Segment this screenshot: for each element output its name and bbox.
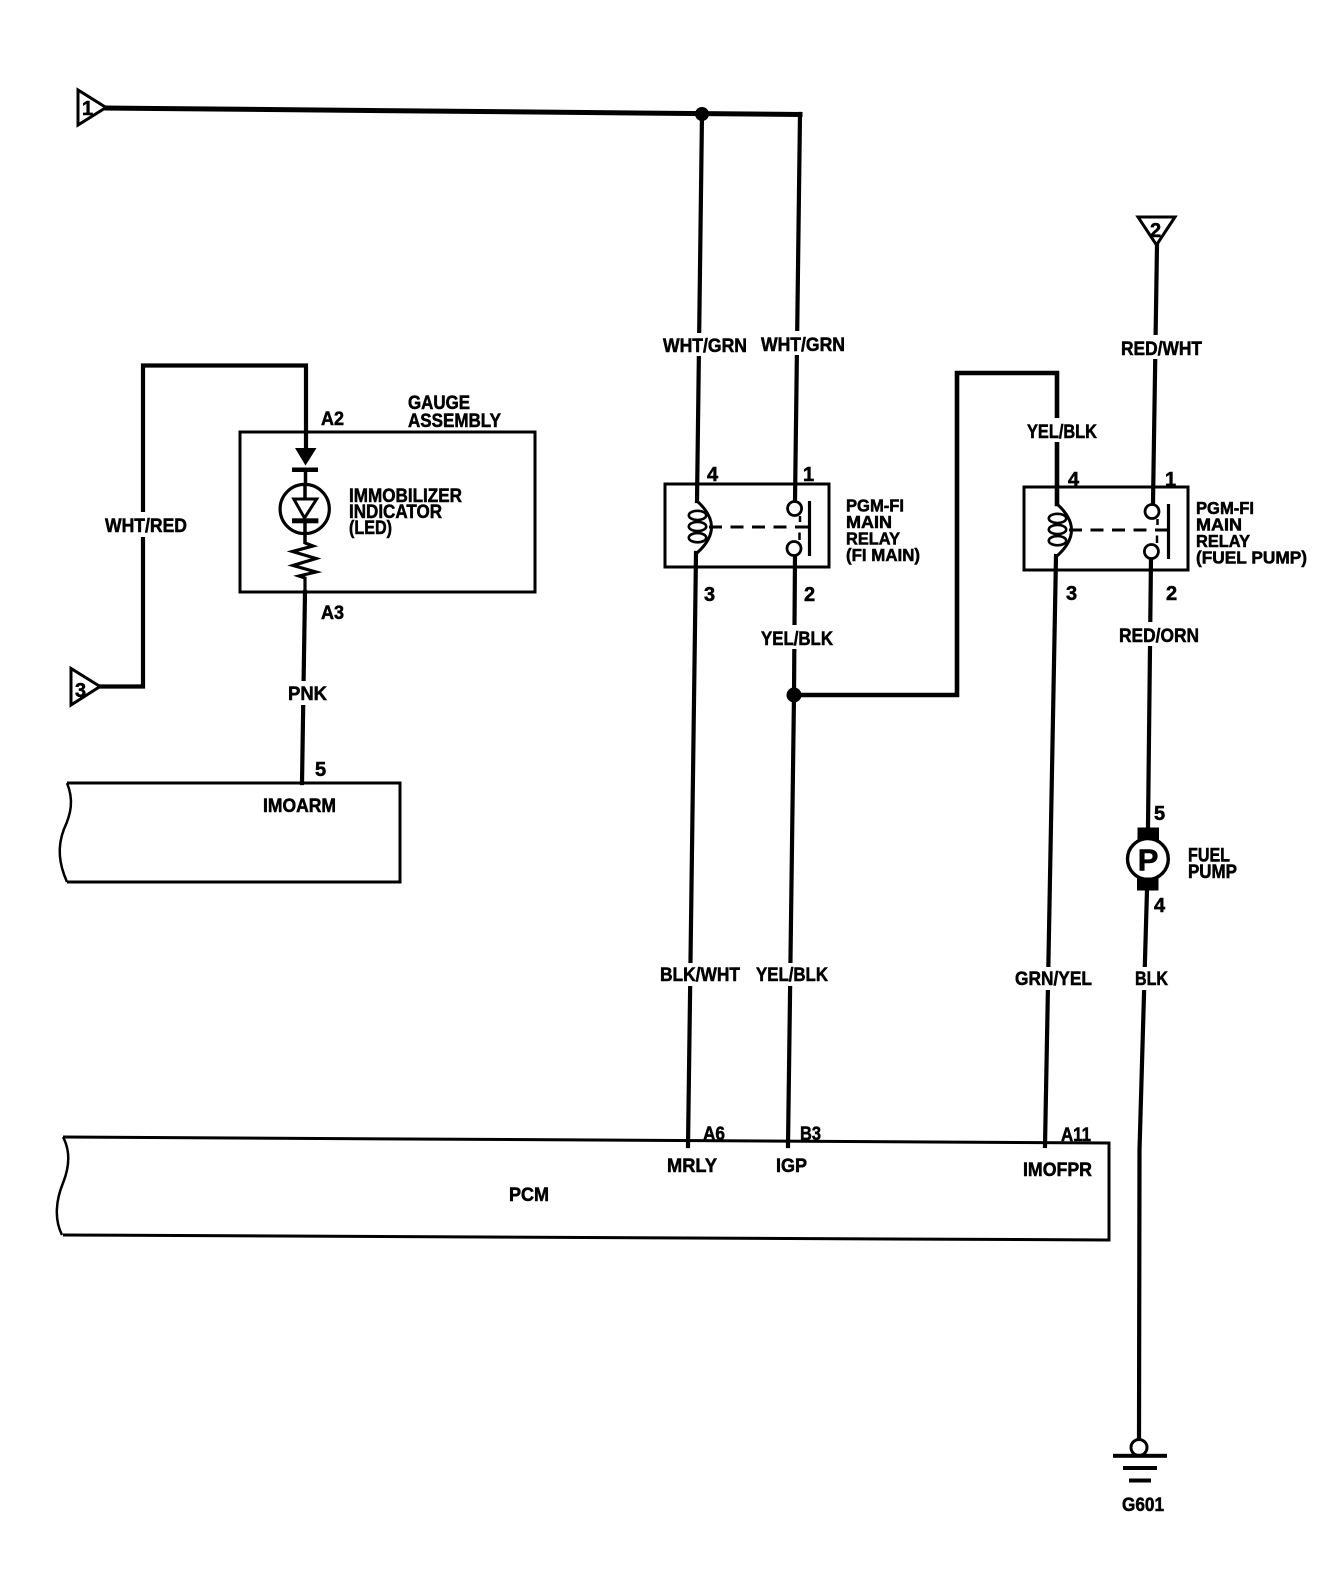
svg-text:A6: A6 (703, 1123, 725, 1145)
fuel pump top terminal (1138, 828, 1160, 842)
relay 2 PGM-FI main relay (FUEL PUMP) (1024, 469, 1188, 605)
relay1 contact circle pin2 (787, 542, 801, 556)
svg-text:WHT/GRN: WHT/GRN (663, 335, 747, 357)
svg-text:P: P (1138, 843, 1159, 878)
fuel pump (1128, 803, 1169, 917)
svg-text:1: 1 (803, 464, 814, 486)
svg-text:A3: A3 (321, 602, 344, 624)
wire YEL/BLK jumper from junction to relay2 coil (794, 373, 1057, 695)
svg-text:(LED): (LED) (349, 517, 392, 539)
gauge assembly box (240, 432, 535, 592)
relay1 armature bar (808, 501, 811, 556)
svg-text:5: 5 (1154, 803, 1165, 825)
diode (immobilizer indicator anode) (292, 448, 318, 485)
ground G601 (1113, 1440, 1167, 1483)
svg-text:RED/ORN: RED/ORN (1119, 625, 1199, 647)
svg-text:(FI MAIN): (FI MAIN) (846, 545, 920, 565)
connector arrow 3 (71, 669, 100, 706)
svg-text:PCM: PCM (509, 1184, 549, 1206)
label GRN/YEL (1011, 967, 1097, 990)
label PNK (284, 681, 332, 705)
label BLK/WHT (656, 963, 745, 986)
svg-text:G601: G601 (1122, 1494, 1164, 1516)
label RED/WHT (1117, 335, 1207, 360)
svg-text:PUMP: PUMP (1188, 861, 1237, 883)
label YEL/BLK top right (1023, 418, 1102, 443)
svg-text:MRLY: MRLY (667, 1155, 717, 1177)
LED circle immobilizer indicator (280, 484, 329, 544)
svg-text:4: 4 (707, 464, 719, 486)
label YEL/BLK mid (757, 625, 838, 650)
label WHT/GRN left (659, 333, 751, 357)
wire relay2 pin3 to PCM A11 (1045, 556, 1056, 1146)
label YEL/BLK bottom (752, 963, 833, 986)
wire relay1 pin3 to PCM A6 (688, 553, 696, 1146)
relay1 contact circle pin1 (788, 502, 802, 516)
svg-text:IGP: IGP (776, 1155, 807, 1177)
relay1 dashed link (709, 526, 800, 529)
label BLK (1131, 967, 1173, 990)
wire relay1 pin2 down to PCM B3 (788, 556, 795, 1146)
svg-text:IMOFPR: IMOFPR (1023, 1159, 1092, 1181)
svg-text:2: 2 (1150, 220, 1161, 242)
svg-text:4: 4 (1154, 895, 1166, 917)
svg-text:3: 3 (704, 584, 715, 606)
relay1 box (665, 484, 829, 567)
svg-text:1: 1 (82, 98, 93, 120)
label PGM-FI MAIN RELAY (FUEL PUMP) (1196, 498, 1307, 568)
connector arrow 1 (78, 90, 106, 125)
label WHT/RED (101, 512, 192, 537)
svg-text:A11: A11 (1061, 1124, 1091, 1146)
svg-text:RED/WHT: RED/WHT (1121, 338, 1202, 360)
connector arrow 2 (1138, 217, 1175, 245)
IMOARM box with torn left edge (60, 783, 400, 882)
relay1 contact leads (799, 516, 802, 522)
relay2 box (1024, 487, 1188, 570)
svg-text:WHT/RED: WHT/RED (105, 515, 187, 537)
svg-text:2: 2 (804, 584, 815, 606)
wire WHT/GRN branch right vertical (795, 114, 800, 501)
svg-text:(FUEL PUMP): (FUEL PUMP) (1196, 548, 1307, 568)
svg-text:B3: B3 (800, 1123, 821, 1145)
wire gauge assembly feed: up from diode, left, down to arrow 3 (101, 366, 306, 687)
junction dot YEL/BLK (787, 688, 802, 703)
wire relay2 pin2 to fuel pump (1148, 558, 1151, 827)
svg-text:IMOARM: IMOARM (263, 795, 336, 817)
label FUEL PUMP (1188, 845, 1237, 884)
svg-text:YEL/BLK: YEL/BLK (756, 964, 828, 986)
fuel pump bottom terminal (1137, 878, 1159, 891)
wire fuel pump to ground G601 (1139, 890, 1147, 1440)
PCM box with torn left edge (57, 1137, 1109, 1240)
svg-text:1: 1 (1165, 469, 1176, 491)
svg-text:3: 3 (75, 680, 86, 702)
svg-text:WHT/GRN: WHT/GRN (761, 334, 845, 356)
relay2 contact leads (1156, 519, 1159, 525)
label IMMOBILIZER INDICATOR (LED) (349, 485, 462, 539)
relay 1 PGM-FI main relay (FI MAIN) (665, 464, 829, 606)
label WHT/GRN right (757, 331, 849, 356)
resistor in gauge assembly (293, 543, 317, 592)
svg-text:GRN/YEL: GRN/YEL (1015, 968, 1092, 990)
wire RED/WHT from arrow 2 to relay2 pin1 (1153, 245, 1157, 503)
svg-text:3: 3 (1066, 583, 1077, 605)
relay2 dashed link (1069, 529, 1160, 532)
svg-text:YEL/BLK: YEL/BLK (761, 628, 833, 650)
wire WHT/GRN left vertical to relay coil (697, 114, 702, 501)
svg-text:BLK/WHT: BLK/WHT (660, 964, 740, 986)
wire top horizontal from arrow 1 (106, 108, 800, 115)
svg-text:YEL/BLK: YEL/BLK (1027, 421, 1097, 443)
label GAUGE ASSEMBLY (408, 392, 501, 432)
junction dot at top wire (695, 107, 709, 121)
svg-text:4: 4 (1068, 469, 1080, 491)
relay1 coil (697, 501, 712, 553)
svg-text:2: 2 (1166, 583, 1177, 605)
relay2 coil (1057, 504, 1072, 556)
fuel pump motor circle (1128, 839, 1169, 880)
relay2 contact circle pin2 (1144, 545, 1158, 559)
wire A3 lead from gauge box to IMOARM (302, 592, 305, 783)
relay2 contact circle pin1 (1145, 505, 1159, 519)
svg-text:A2: A2 (321, 408, 344, 430)
svg-text:ASSEMBLY: ASSEMBLY (408, 410, 501, 432)
svg-text:PNK: PNK (288, 683, 327, 705)
svg-text:5: 5 (315, 759, 326, 781)
relay2 armature bar (1167, 504, 1170, 559)
label PGM-FI MAIN RELAY (FI MAIN) (846, 496, 920, 566)
svg-text:BLK: BLK (1135, 968, 1168, 990)
label RED/ORN (1115, 622, 1204, 647)
